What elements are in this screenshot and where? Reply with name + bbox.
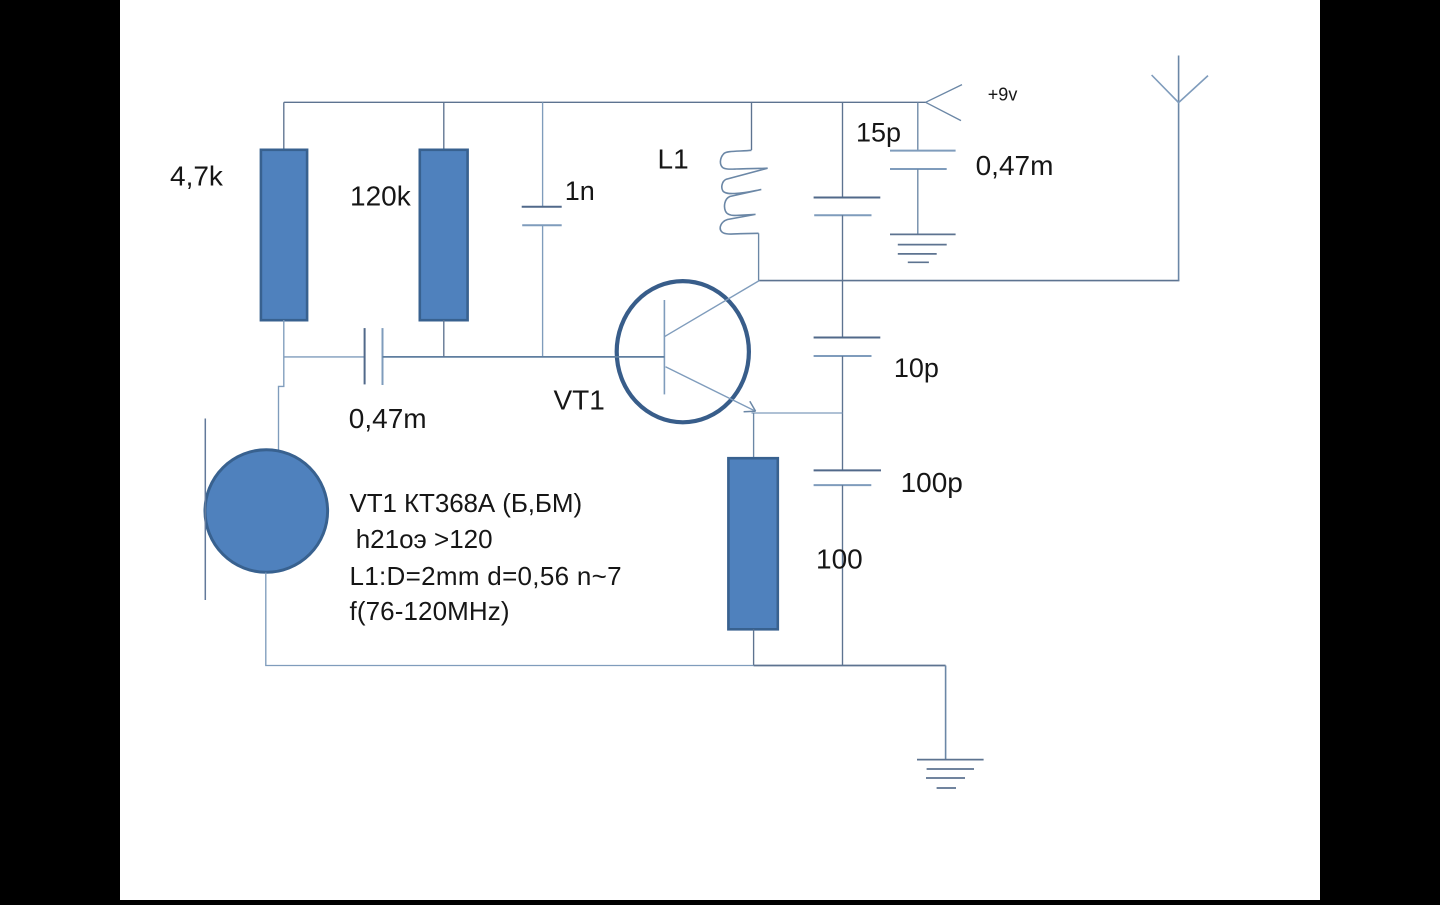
wire: R1 bottom to microphone xyxy=(279,320,284,451)
svg-text:4,7k: 4,7k xyxy=(170,161,224,192)
wire: rail drop to C4 (15p) xyxy=(842,102,844,197)
wire: rail drop to R1 xyxy=(283,102,285,150)
power terminal +9V (open arrow) xyxy=(926,85,962,121)
svg-text:1n: 1n xyxy=(565,176,595,206)
svg-text:VT1: VT1 xyxy=(554,385,605,416)
antenna W1 arms xyxy=(1152,75,1208,103)
wire: R2 bottom lead xyxy=(443,320,445,357)
wire: emitter drop to R3 xyxy=(753,413,755,458)
resistor R3 100 xyxy=(728,458,777,629)
svg-text:0,47m: 0,47m xyxy=(349,403,427,434)
transistor VT1 xyxy=(617,281,760,423)
wire: rail drop to L1 xyxy=(751,102,753,150)
wire: antenna mast xyxy=(1178,56,1180,281)
wire: R3 bottom lead xyxy=(753,629,755,665)
wire: bottom ground rail (left) xyxy=(266,573,754,666)
microphone BM1 xyxy=(205,419,328,601)
ground (bottom) xyxy=(917,760,984,788)
wire: drop to bottom ground xyxy=(945,666,947,760)
wire: rail drop to R2 xyxy=(443,102,445,150)
capacitor C6 100p xyxy=(814,470,881,485)
wire: +9V top supply rail xyxy=(284,101,926,103)
capacitor C4 15p xyxy=(814,198,881,216)
wire: bottom ground rail (right) xyxy=(754,665,946,667)
svg-text:VT1 КТ368А (Б,БМ): VT1 КТ368А (Б,БМ) xyxy=(350,488,583,518)
capacitor C3 0,47m xyxy=(890,151,956,169)
wire: C1 bottom lead xyxy=(542,225,544,357)
wire: chain segment 100p to ground rail xyxy=(842,485,844,665)
capacitor C5 10p xyxy=(814,338,881,357)
wire: base wire right of C2 xyxy=(383,356,665,358)
svg-text:15p: 15p xyxy=(856,118,901,148)
svg-text:L1:D=2mm d=0,56 n~7: L1:D=2mm d=0,56 n~7 xyxy=(350,561,622,591)
resistor R1 4,7k xyxy=(261,150,307,320)
svg-text:+9v: +9v xyxy=(988,84,1018,104)
wire: chain segment 10p to 100p xyxy=(842,356,844,470)
capacitor C2 0,47m input xyxy=(365,328,383,385)
wire: rail drop to C3 (0,47m) xyxy=(917,102,919,150)
svg-text:L1: L1 xyxy=(658,144,689,175)
wire: chain segment 15p to 10p xyxy=(842,215,844,337)
ground under C3 xyxy=(890,234,956,262)
wire: collector node to antenna xyxy=(759,280,1179,282)
svg-text:h21оэ >120: h21оэ >120 xyxy=(356,524,493,554)
svg-text:100p: 100p xyxy=(901,467,963,498)
wire: emitter junction horizontal xyxy=(752,412,843,414)
svg-text:120k: 120k xyxy=(350,180,412,211)
svg-text:100: 100 xyxy=(816,543,863,574)
svg-text:10p: 10p xyxy=(894,353,939,383)
resistor R2 120k xyxy=(420,150,468,320)
wire: C3 lead to ground xyxy=(917,169,919,234)
wire: L1 bottom lead xyxy=(758,233,760,280)
svg-text:0,47m: 0,47m xyxy=(976,150,1054,181)
svg-text:f(76-120MHz): f(76-120MHz) xyxy=(350,596,510,626)
inductor L1 coil xyxy=(720,150,767,234)
wire: rail drop to C1 xyxy=(542,102,544,206)
capacitor C1 1n xyxy=(522,207,562,226)
wire: base wire left of C2 xyxy=(284,356,365,358)
